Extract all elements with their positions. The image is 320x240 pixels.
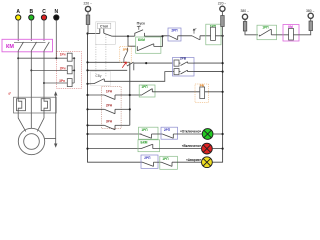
wire row to 2RV relay box [134, 62, 173, 64]
node row B bus [86, 148, 88, 150]
wire 1RP to RV coil [152, 91, 200, 93]
wire lamp green to bus [213, 133, 223, 135]
phase terminal A [16, 15, 21, 20]
wire main row to stop [88, 33, 100, 35]
relay contact 1RP mid blade [141, 89, 152, 96]
wire 3RN row [88, 124, 105, 126]
svg-text:N: N [54, 9, 58, 15]
contactor coil box KM [283, 25, 299, 42]
wire 1RN row [88, 94, 105, 96]
relay 2RV coil top [174, 60, 179, 66]
temperature contact blade [192, 36, 200, 40]
wire phase N drop [55, 20, 57, 58]
wire seal to riser [154, 36, 163, 46]
timer contact riser [133, 63, 135, 70]
wire phase C drop [43, 20, 45, 41]
stop button blade [104, 33, 112, 36]
supply 380 terminal right [308, 13, 313, 18]
wire A to motor [18, 111, 26, 132]
relay contact 2RP blade [169, 36, 177, 40]
lamp row B contact box BKM [138, 140, 160, 152]
wire fuse to bus [87, 25, 89, 34]
contactor aux box 1RP [257, 25, 277, 40]
lamp yellow [202, 157, 213, 168]
node C heater row [43, 82, 45, 84]
fuse FU2 [221, 16, 225, 27]
right control bus [212, 36, 223, 162]
node bus row bottom [222, 71, 224, 73]
wire to 2RP box [163, 35, 170, 37]
ground arrow down [54, 144, 57, 148]
switch contact SVu blade [94, 79, 104, 84]
lamp row A contact 2RP [162, 134, 202, 138]
node row A bus [86, 133, 88, 135]
svg-text:СВу: СВу [96, 74, 102, 78]
heater bank dashed box [57, 52, 82, 89]
lamp row A contact 1RP [140, 134, 162, 138]
node 2RN bus [86, 108, 88, 110]
wire heater row 2 [31, 69, 67, 71]
node A heater row [17, 57, 19, 59]
wire phase A down to thermal block [17, 58, 19, 98]
contactor KM pole A [18, 42, 23, 58]
wire 2RV bottom row to bus [194, 71, 223, 73]
lamp row C contact 2RP [143, 162, 162, 166]
svg-text:380 ~: 380 ~ [306, 9, 315, 13]
wire 1RP to KM coil [271, 34, 289, 36]
timer actuation red arrow [122, 62, 126, 68]
wire heater link vertical [73, 58, 75, 83]
relay box 2RV [173, 58, 195, 77]
fuse FU3 [243, 22, 247, 32]
svg-text:Стоп: Стоп [100, 25, 108, 29]
svg-text:«Авария»: «Авария» [186, 158, 202, 162]
svg-text:1РН: 1РН [106, 90, 113, 94]
lamp green [202, 129, 213, 140]
lamp row B contact BKM [141, 144, 153, 148]
svg-text:t°: t° [195, 27, 197, 31]
wire heater row 3 [44, 82, 67, 84]
wire motor to ground [45, 137, 56, 139]
wire terminal to fuse [87, 12, 89, 15]
wire terminal to fuse right [221, 11, 223, 15]
wire 2RP to t-contact [178, 35, 192, 37]
node seal top [161, 35, 163, 37]
motor M [18, 128, 44, 154]
wire 2RV top row to bus [194, 62, 223, 64]
lamp row C contact box RV [160, 156, 178, 169]
svg-text:2Рн: 2Рн [60, 66, 66, 70]
relay contact box 1RP mid [139, 85, 155, 97]
wire t-contact to coil 1RP [200, 35, 211, 37]
row2 wire [88, 69, 128, 71]
wire 1RN to 1RP contact box [130, 94, 141, 96]
svg-text:2РП: 2РП [164, 128, 171, 132]
svg-text:A: A [16, 9, 20, 15]
thermal relay block outline [14, 97, 57, 113]
node row1 bus [86, 61, 88, 63]
control supply terminal [85, 6, 90, 11]
wire heater row 1 [18, 57, 67, 59]
relay 2RV coil bottom [174, 69, 179, 75]
svg-text:2РП: 2РП [171, 29, 178, 33]
wire lamp red to bus [212, 148, 222, 150]
svg-text:Пуск: Пуск [137, 21, 145, 25]
contactor KM pole B [31, 42, 36, 70]
svg-text:B: B [29, 9, 33, 15]
lamp row A contact box 2RP [161, 127, 178, 139]
wire phase A drop [17, 20, 19, 41]
node bus top [222, 35, 224, 37]
lamp row C contact box 2RP [141, 155, 158, 168]
thermal contact 2RN [104, 109, 130, 114]
timer contact box 2RV [120, 47, 131, 63]
svg-text:«Отключено»: «Отключено» [180, 130, 202, 134]
svg-text:C: C [42, 9, 46, 15]
svg-text:1РП: 1РП [141, 85, 148, 89]
lamp red [202, 143, 213, 154]
node heater link mid [73, 69, 75, 71]
svg-text:2РН: 2РН [106, 103, 113, 107]
node bus RV row [222, 91, 224, 93]
timer contact blade [127, 62, 134, 66]
svg-text:1РП: 1РП [262, 26, 269, 30]
seal branch wire [128, 36, 136, 46]
contactor aux contact 1RP [259, 29, 271, 36]
stop button posts [100, 29, 104, 34]
temperature contact arrow [193, 29, 195, 34]
node 1RN bus [86, 94, 88, 96]
row1 wire to RN chain [88, 61, 130, 63]
relay contact box 2RP [168, 28, 181, 41]
thermal element phase C [41, 99, 50, 111]
control supply terminal right [220, 6, 225, 11]
wire phase B down to thermal block [30, 70, 32, 113]
contactor coil KM [289, 28, 294, 40]
lamp row A contact box 1RP [139, 127, 159, 139]
relay coil box 1RP [206, 24, 221, 45]
svg-text:2РП: 2РП [144, 156, 151, 160]
wire RV coil to bus [205, 91, 223, 93]
ground riser [55, 95, 57, 145]
phase terminal B [29, 15, 34, 20]
node row2 bus [86, 69, 88, 71]
wire phase B drop [30, 20, 32, 41]
svg-text:3Рн: 3Рн [59, 79, 65, 83]
wire stop to pusk [112, 35, 135, 37]
wire SVu to riser [104, 72, 174, 82]
supply 380 terminal left [242, 14, 247, 19]
svg-text:«Включено»: «Включено» [182, 144, 202, 148]
svg-text:КМ: КМ [6, 44, 14, 50]
stop button enclosure [96, 22, 116, 45]
thermal contact 3RN [104, 125, 130, 130]
wire heater3 to link [72, 82, 74, 84]
phase terminal C [41, 15, 46, 20]
wire 380L elbow [245, 31, 258, 35]
heater 3Rn element [67, 79, 72, 87]
svg-text:220 ~: 220 ~ [84, 1, 93, 5]
relay coil 1RP [211, 27, 216, 40]
timer coil box RV [195, 84, 209, 103]
node bus lamp B [222, 148, 224, 150]
wire heater1 to link [72, 57, 74, 59]
thermal element phase A [17, 99, 26, 111]
heater 1Rn element [67, 53, 72, 61]
contactor KM box [2, 39, 53, 52]
node N heater row [55, 57, 57, 59]
fuse FU4 [309, 21, 313, 31]
heater 2Rn element [67, 66, 72, 74]
svg-text:3РН: 3РН [106, 119, 113, 123]
wire 380R fuse to terminal [310, 18, 312, 21]
seal contact box BKM [136, 37, 161, 53]
svg-text:БКМ: БКМ [138, 38, 145, 42]
thermal contact 1RN [104, 95, 130, 100]
wire C to motor [37, 111, 44, 132]
svg-text:БКМ: БКМ [141, 141, 148, 145]
lamp row B wire left [88, 148, 142, 150]
switch SV enclosure [91, 71, 111, 85]
node 2RN chain [129, 108, 131, 110]
wire KM coil to 380R [293, 31, 310, 35]
timer coil RV [200, 87, 205, 99]
thermal contacts dashed box [102, 87, 122, 129]
node 1RN chain [129, 94, 131, 96]
lamp row A wire left [88, 133, 142, 135]
ground arrow up [54, 91, 57, 95]
node mid row [145, 62, 147, 64]
svg-text:2РВ: 2РВ [180, 57, 187, 61]
seal contact KM [137, 44, 154, 51]
node main row left [86, 32, 88, 34]
wire phase C down to thermal block [43, 83, 45, 99]
timer contact vertical blade [124, 48, 128, 62]
lamp row B wire right [153, 148, 201, 150]
wire fuse2 to bus [221, 27, 223, 36]
phase terminal N [54, 15, 59, 20]
node bus lamp A [222, 133, 224, 135]
wire heater2 to link [72, 69, 74, 71]
lamp row C contact RV [162, 162, 202, 166]
switch contact SVu wire [88, 83, 95, 85]
relay 2RV contact bottom [179, 70, 194, 74]
node B heater row [30, 69, 32, 71]
stop button label box [97, 23, 110, 28]
wire 2RN row [88, 108, 105, 110]
wire B through block [30, 113, 32, 128]
mech link dotted left [95, 44, 97, 76]
svg-text:1РП: 1РП [141, 128, 148, 132]
relay 2RV contact top [179, 62, 194, 66]
start button actuator T [137, 26, 141, 30]
wire 380L to fuse [244, 19, 246, 21]
svg-text:380 ~: 380 ~ [241, 9, 250, 13]
fuse FU1 [86, 15, 90, 25]
contactor KM linkage bar [14, 41, 46, 43]
node bus row top [222, 62, 224, 64]
wire coil to bus [216, 35, 223, 37]
node heater link top [73, 57, 75, 59]
svg-text:220 ~: 220 ~ [218, 1, 227, 5]
node SVu bus [86, 83, 88, 85]
start button contact [135, 30, 145, 36]
node seal branch [127, 35, 129, 37]
svg-text:1РП: 1РП [162, 157, 169, 161]
node 3RN bus [86, 124, 88, 126]
contactor KM pole C [44, 42, 49, 83]
RN chain vertical [129, 62, 131, 125]
mech link dotted right [105, 35, 107, 77]
svg-text:1Рн: 1Рн [60, 53, 66, 57]
left control bus [88, 34, 143, 163]
wire pusk to seal riser [144, 35, 162, 37]
